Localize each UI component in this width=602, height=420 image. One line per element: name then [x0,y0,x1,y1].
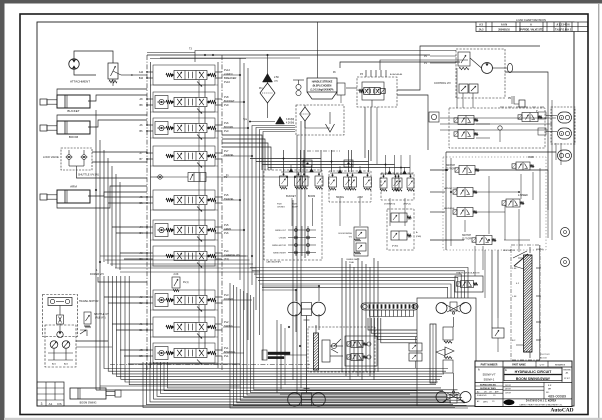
svg-text:DOZER V/V: DOZER V/V [90,272,104,276]
valve park brake [512,156,535,170]
wire left-to-center runs [100,256,260,272]
wire bucket A [57,89,147,95]
svg-text:Pv1: Pv1 [224,354,229,358]
wire nest bottom-left [230,283,468,408]
svg-text:Pv9: Pv9 [224,103,229,107]
valve section CHARGE V/V [147,246,222,268]
svg-text:Pm: Pm [259,87,263,90]
wire lockvalve runs [77,152,148,178]
svg-text:(T2): (T2) [224,257,229,261]
label SWING [224,320,233,328]
valve section TRAVEL [147,190,222,212]
svg-text:TRAVEL: TRAVEL [224,197,234,201]
svg-text:REV/MK: REV/MK [563,370,571,372]
wire right cluster extra [430,168,548,240]
valve pedal lever [331,339,341,353]
svg-text:A1 A2 A3 A4: A1 A2 A3 A4 [390,73,403,76]
shuttle valve matrix [272,226,316,256]
svg-text:TRAVEL: TRAVEL [224,153,234,157]
pilot unit BUCKET [280,165,303,198]
svg-text:Pv(1): Pv(1) [183,282,189,284]
svg-text:Pv5: Pv5 [224,193,229,197]
svg-text:(1.3-15.9kgf/1430KPA: (1.3-15.9kgf/1430KPA [310,89,333,92]
svg-text:BUCKET: BUCKET [286,195,296,198]
svg-text:3: 3 [41,402,43,406]
svg-text:REMARKS: REMARKS [555,364,566,367]
label Pn [259,71,337,90]
valve cab cluster box C [381,173,414,200]
wire arm A [57,186,147,208]
wire PN filter [508,96,525,107]
svg-text:SUPSD BY DWG: SUPSD BY DWG [480,388,496,390]
label BKE LATCH [503,249,544,252]
wire Ps [424,55,456,65]
label SHUTTLE V/V [78,174,99,177]
node ports A8/B8 [140,98,148,107]
cylinder BOOM [40,121,90,139]
svg-text:AR: AR [139,349,143,352]
svg-text:ARM: ARM [70,185,77,189]
svg-text:2-SPEED: 2-SPEED [518,195,528,197]
svg-text:Pv2: Pv2 [224,320,229,324]
svg-text:Pb: Pb [224,175,228,179]
svg-text:A10: A10 [139,71,144,74]
svg-text:PLAE: PLAE [349,261,355,264]
relief valve 2.0K [172,273,189,292]
wire strip stubs [516,247,530,358]
svg-text:Pv3: Pv3 [224,293,229,297]
tank return group [296,105,344,135]
svg-text:A2: A2 [477,391,479,394]
pilot unit ARM [349,166,372,199]
cylinder BOOM SWING [70,388,121,399]
svg-text:B R: B R [548,385,552,387]
wire valve bank top run [147,54,430,56]
svg-text:CONTROL V/V: CONTROL V/V [434,82,451,85]
wire cooler vertical [267,55,269,118]
label BOOM1 [224,121,234,133]
valve section TRAVEL [147,146,222,168]
svg-text:A3: A3 [477,400,479,403]
port circles right [561,228,570,267]
wire group A to bank [262,286,319,332]
svg-text:LOCK VALVE: LOCK VALVE [43,155,59,159]
svg-text:BOOM SWING: BOOM SWING [80,402,97,405]
valve reverse [444,208,477,217]
svg-text:PART NUMBER: PART NUMBER [481,364,498,367]
svg-text:4.2K(M): 4.2K(M) [286,123,294,125]
wire comb drop bundle [342,258,378,380]
main control valve boundary bottom [110,364,310,366]
svg-text:REVERSE: REVERSE [444,208,455,210]
node ports A1/B1 [140,323,148,332]
svg-text:Pv6: Pv6 [224,121,229,125]
wire bucket B [88,95,147,101]
label CHARGE V/V [224,249,240,261]
pilot unit BOOMSWING [380,167,414,191]
label ARM1 [224,223,232,235]
svg-text:SCALE N/S: SCALE N/S [477,394,487,397]
svg-text:MH: MH [548,388,552,390]
node ports A5/B5 [140,196,148,205]
svg-text:AutoCAD: AutoCAD [550,408,573,414]
pump attachment P0 [69,51,113,75]
svg-text:Pv6: Pv6 [224,231,229,235]
wire bottom stair bundle [76,276,448,385]
arrow to tank [113,71,133,76]
svg-text:(25): (25) [274,81,278,83]
svg-text:DAEWOO HEAVY INDUSTRIES & MACH: DAEWOO HEAVY INDUSTRIES & MACHINERY LTD. [519,403,563,406]
valve switch cut-off 2 [462,235,496,245]
svg-text:HANDLE STROKE: HANDLE STROKE [312,81,333,84]
svg-text:BUCKET: BUCKET [224,99,235,103]
svg-text:L.5K: L.5K [512,296,517,298]
wire valve inlet bus left [150,62,152,368]
label PuM lines [277,204,298,209]
svg-text:2.0K: 2.0K [174,273,179,276]
valve section ARM1 [147,220,222,242]
label 2-WAY/ [224,68,237,84]
wire pilot supply drops [365,107,377,164]
svg-text:LOAD CHART REVISION: LOAD CHART REVISION [516,18,546,22]
svg-text:ATTACHMENT: ATTACHMENT [70,80,90,84]
wire dozer [98,277,147,282]
wire comb to group B [368,318,417,343]
label CAB VALVE [266,261,281,264]
valve section DOZER [147,290,222,312]
label DOWN UP [384,204,411,206]
port group right oval mid [558,150,572,161]
svg-text:JA.3: JA.3 [479,28,485,31]
wire right cluster wiring [440,118,556,276]
valve section SWING [147,317,222,339]
valve pilot check small [492,318,504,352]
svg-text:DR BY: DR BY [505,385,512,387]
svg-text:BOOM SWING/2WAY: BOOM SWING/2WAY [516,377,551,381]
svg-text:BOOM SWING: BOOM SWING [339,233,353,235]
wire arm B [88,192,147,196]
svg-text:BR: BR [139,355,143,358]
node ports A4/B4 [140,226,148,235]
svg-text:(Pv8D): (Pv8D) [392,246,399,248]
label B/SWING [224,346,235,358]
label SHUTTLE VV [94,314,109,320]
valve cab cluster box B [329,171,371,202]
main control valve boundary right [221,55,223,370]
pump MAIN PUMP GROUP [45,325,76,367]
node ports A6/B6 [140,124,148,133]
svg-text:TRAVEL MOTOR: TRAVEL MOTOR [79,300,99,303]
pilot unit SWING [329,166,352,199]
motor fan drive group [456,49,513,108]
wire bank stubs [223,75,252,353]
note box handle stroke [307,78,345,103]
label TRAVEL [224,149,234,157]
valve pedal block [345,336,377,366]
wire left return verticals [96,110,240,390]
svg-text:(SHT): (SHT) [483,402,488,404]
wire group A left verticals [277,320,285,393]
svg-text:CHEBLE SAOC: CHEBLE SAOC [346,258,360,261]
wire notebox [346,87,357,89]
valve shuttle relief [80,312,91,336]
svg-text:T.H.LF D.M.H 2: T.H.LF D.M.H 2 [555,29,572,31]
manifold comb [361,303,418,317]
valve straight travel [151,173,228,182]
label TRAVEL [224,193,234,201]
svg-text:489-00089: 489-00089 [548,395,566,399]
node small square [429,112,439,122]
svg-text:Pv1: Pv1 [224,346,229,350]
svg-text:ARM1: ARM1 [224,227,232,231]
wire valve bank top run2 [160,57,300,59]
wire boom B [88,120,147,127]
valve section BOOM1 [147,118,222,140]
svg-text:SWING CUT: SWING CUT [275,230,287,232]
svg-text:3P-PROD. VALVE STD: 3P-PROD. VALVE STD [519,28,543,31]
svg-text:D A E W O O H. I. C. KOREA: D A E W O O H. I. C. KOREA [526,400,557,403]
wire top right runs [340,46,540,90]
valve cab cluster box A [264,170,322,260]
svg-text:NO.: NO. [546,392,550,394]
svg-text:DOWN(Pv3): DOWN(Pv3) [384,204,395,206]
valve group B body [430,317,454,392]
svg-text:1/1: 1/1 [493,395,496,397]
svg-text:550W-V7: 550W-V7 [483,372,496,376]
wire right verticals [397,72,552,240]
wire top long runs [147,22,456,78]
wire attachment to valve [133,74,147,76]
svg-text:3P S/T: 3P S/T [564,378,571,380]
svg-text:PuM: PuM [292,204,297,206]
wire center verticals A [240,58,295,360]
revision table [476,18,588,32]
valve pump travel [444,188,477,197]
wire Fy long run [206,174,310,178]
svg-text:(N.SPL/CHOSEN: (N.SPL/CHOSEN [313,85,332,88]
valve travel pedal unit [308,325,375,372]
svg-text:CHARGE V/V: CHARGE V/V [224,253,240,257]
cab dashdot fragment [264,150,340,152]
svg-text:A A N: A A N [501,24,507,27]
joystick grip [262,350,307,360]
svg-text:BKE LATCH: BKE LATCH [503,249,515,252]
wire verticals near title [485,250,498,328]
svg-text:PART NAME: PART NAME [512,364,526,367]
svg-text:2.5K: 2.5K [274,76,279,79]
valve pair left of group B [409,337,422,368]
wire cluster downs [292,198,405,226]
node ports A3/B3 [140,252,148,261]
wire nest bank-bottom [143,362,455,408]
svg-text:A/L: A/L [566,372,569,375]
svg-text:1/1: 1/1 [492,401,495,403]
svg-text:HYDRAULIC CIRCUIT: HYDRAULIC CIRCUIT [515,370,553,374]
wire bank gallery verticals [199,80,205,348]
wire bottom run right [280,390,417,394]
boundary right cluster [443,157,546,250]
svg-text:3.3K(M): 3.3K(M) [286,119,294,121]
node ports AR/BR [139,349,147,358]
pilot control group B [436,302,471,403]
svg-text:DOZER: DOZER [224,297,233,301]
relief valve attachment [108,63,118,86]
svg-text:SWING RIGHT: SWING RIGHT [273,253,287,255]
accumulator [293,80,304,96]
svg-text:Pv8: Pv8 [224,95,229,99]
wire mid horizontal bus [250,268,468,299]
svg-text:PuM: PuM [277,204,282,206]
svg-text:PARK: PARK [528,156,535,159]
valve boom swing stack [339,227,368,264]
valve travel modulation [455,276,483,292]
svg-text:1.0K: 1.0K [512,268,517,270]
svg-text:BOOM1: BOOM1 [224,125,234,129]
svg-text:BOOM: BOOM [69,135,79,139]
svg-text:SWING MOTOR: SWING MOTOR [272,245,287,247]
wire valve outlet bus right [217,62,219,368]
svg-text:CH BY: CH BY [505,392,512,394]
svg-text:A 1 2 3 4 5 6: A 1 2 3 4 5 6 [556,24,570,27]
valve solenoid cluster [449,108,545,148]
svg-text:PN: PN [508,98,512,100]
label ATTACHMENT [70,80,90,84]
wire Tpu [243,118,275,122]
label BOOM SWING cyl [80,402,97,405]
svg-text:BUCKET: BUCKET [67,109,79,113]
svg-text:Pv7: Pv7 [224,149,229,153]
node ports A7/B7 [140,152,148,161]
svg-text:PILOT V/V: PILOT V/V [540,354,550,356]
oil cooler warning triangle [263,74,280,83]
svg-text:DS: DS [57,402,61,406]
svg-text:SWITCH: SWITCH [462,235,471,237]
valve two speed [502,195,528,207]
wire left pipe bundle [104,150,120,270]
svg-text:Pv5: Pv5 [224,223,229,227]
label TRAVEL MODULATION [456,272,480,275]
cylinder ARM [40,185,90,204]
table bottom-left revision [37,382,64,406]
valve section BUCKET [147,92,222,114]
svg-text:BLOCK: BLOCK [540,358,547,360]
svg-text:550W-1: 550W-1 [484,377,495,381]
valve switch cut-off 1 [446,165,479,175]
svg-text:2004/01/10: 2004/01/10 [498,28,510,31]
wire cluster top runs [250,158,410,169]
label BUCKET [224,95,235,107]
motor TRAVEL MOTOR [43,295,78,337]
svg-text:Pv4: Pv4 [224,249,229,253]
svg-text:DE BY: DE BY [505,388,512,390]
wire port stubs left [104,197,147,356]
wire cluster risers [284,150,411,175]
svg-text:(P&B): (P&B) [416,236,421,238]
svg-text:BREAKER: BREAKER [224,76,237,80]
label TRAVEL MOTOR [79,300,99,303]
svg-text:Q'TY: Q'TY [540,364,545,366]
valve pilot supply group [357,70,403,107]
svg-text:Pv0: Pv0 [224,129,229,133]
valve section B/SWING [147,343,222,365]
label CONTROL V/V [434,82,451,85]
cylinder BUCKET [40,95,90,113]
wire bottom runs [128,363,240,365]
svg-text:CAB VALVE[P]: CAB VALVE[P] [266,261,281,264]
svg-text:CHOMG: CHOMG [279,238,287,240]
oil cooler filter diamond [260,83,275,103]
wire center verticals B [293,121,305,393]
cylinder boom swing section [511,245,550,360]
valve brake latch [513,251,528,269]
label DOZER [224,293,233,301]
wire bank-to-cluster steps [222,135,271,170]
port group right ovals top [500,107,575,165]
svg-text:UP(Pv4): UP(Pv4) [403,204,411,206]
node ports A2/B2 [140,296,148,305]
node ports A10/B10 [139,71,148,80]
svg-text:SWING: SWING [224,324,233,328]
svg-text:2-WAY/: 2-WAY/ [224,72,233,76]
label AutoCAD [550,408,573,414]
wire group B frame [417,298,476,406]
svg-text:Pv10: Pv10 [224,80,230,84]
title block [475,361,572,407]
svg-text:BUMP: BUMP [292,207,298,209]
pilot control group A [288,302,326,406]
svg-text:CHOMG: CHOMG [277,207,285,209]
labels hatched strip [512,268,541,342]
svg-text:B10: B10 [139,77,144,80]
valve LOCK VALVE [61,148,92,172]
valve section 2-WAY/ [147,65,222,87]
pilot unit BOOM [300,165,323,198]
svg-text:A1: A1 [49,402,53,406]
svg-text:SWITCH: SWITCH [446,165,455,167]
svg-text:SUPSD DWG NO: SUPSD DWG NO [480,384,496,386]
valve right stack [387,209,421,250]
main control valve boundary left [146,55,148,370]
label LOCK VALVE [43,155,59,159]
svg-text:BOOM: BOOM [308,195,315,198]
label DOZER V/V [90,268,104,276]
relief marker triangle 3.3K [276,117,295,125]
wire boom A [57,115,147,121]
svg-text:Pv12: Pv12 [224,68,230,72]
